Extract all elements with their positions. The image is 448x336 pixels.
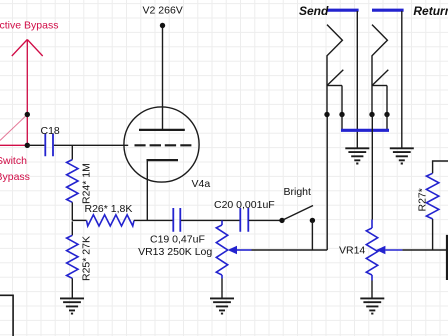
svg-text:Active Bypass: Active Bypass: [0, 20, 58, 32]
svg-text:Return: Return: [413, 4, 448, 18]
svg-text:C20 0,001uF: C20 0,001uF: [214, 199, 275, 211]
svg-text:Bright: Bright: [284, 186, 312, 198]
svg-text:VR14: VR14: [339, 245, 365, 257]
svg-text:R24* 1M: R24* 1M: [81, 163, 93, 204]
svg-text:Send: Send: [299, 4, 329, 18]
svg-text:VR13 250K Log: VR13 250K Log: [138, 246, 212, 258]
svg-text:Switch: Switch: [0, 155, 27, 167]
svg-text:C19 0,47uF: C19 0,47uF: [150, 234, 205, 246]
svg-text:R25* 27K: R25* 27K: [81, 236, 93, 281]
svg-text:R27*: R27*: [417, 188, 429, 211]
svg-text:R26* 1,8K: R26* 1,8K: [85, 203, 133, 215]
svg-text:V2 266V: V2 266V: [143, 5, 183, 17]
svg-text:Bypass: Bypass: [0, 171, 30, 183]
svg-text:C18: C18: [41, 125, 60, 137]
svg-text:V4a: V4a: [192, 178, 211, 190]
